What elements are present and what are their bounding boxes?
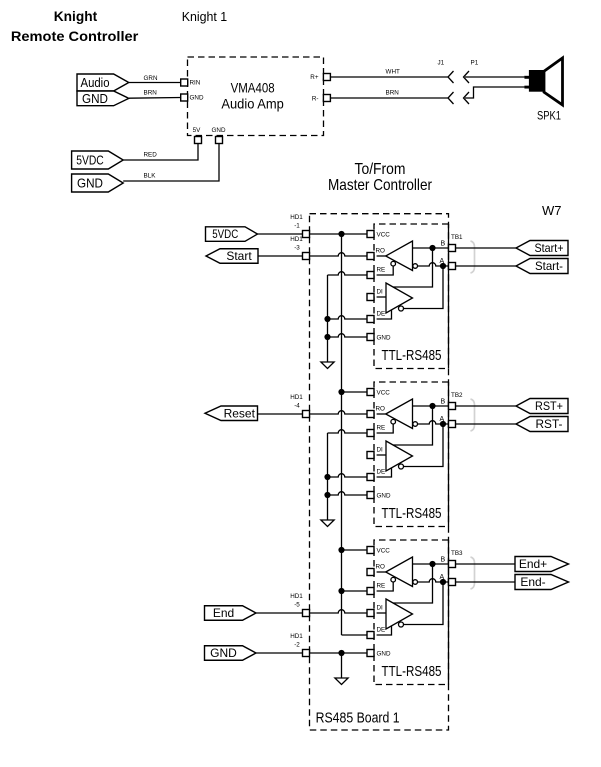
bubble A input (TB3) xyxy=(413,580,418,585)
svg-text:DI: DI xyxy=(377,447,384,454)
svg-text:To/From: To/From xyxy=(355,161,406,178)
wire RST+ xyxy=(455,405,516,407)
svg-text:Audio Amp: Audio Amp xyxy=(221,96,284,111)
pin TB3-A xyxy=(449,579,456,586)
bubble driver inverted out (TB2) xyxy=(399,464,404,469)
bubble RE enable (TB3) xyxy=(391,577,396,582)
wire BRN xyxy=(129,97,181,100)
svg-text:Start+: Start+ xyxy=(535,241,564,255)
wire driver inverted out to A (TB1) xyxy=(404,266,444,309)
wire RE/DE/GND tie to ground bus (TB2) xyxy=(328,430,368,433)
svg-text:TTL-RS485: TTL-RS485 xyxy=(382,663,442,680)
wire End (DI3) xyxy=(310,610,368,613)
svg-text:BLK: BLK xyxy=(144,173,157,180)
wire line B (TB1) xyxy=(413,247,449,249)
pin VCC (TB1) xyxy=(367,231,374,238)
node RST+ xyxy=(516,399,568,414)
svg-text:RIN: RIN xyxy=(190,80,201,87)
wire WHT xyxy=(330,76,448,78)
pin R+ xyxy=(323,74,330,81)
pin GND (amp power side) xyxy=(216,137,223,144)
node 5VDC (board) xyxy=(206,227,258,242)
svg-text:TB1: TB1 xyxy=(451,234,463,241)
wire line B (TB3) xyxy=(413,563,449,565)
pin TB1-B xyxy=(449,245,456,252)
svg-text:W7: W7 xyxy=(542,203,562,218)
bubble A input (TB1) xyxy=(413,264,418,269)
pin R- xyxy=(323,95,330,102)
bubble driver inverted out (TB3) xyxy=(399,622,404,627)
svg-text:B: B xyxy=(441,399,446,406)
svg-text:Knight 1: Knight 1 xyxy=(182,9,228,24)
svg-text:DE: DE xyxy=(377,311,386,318)
svg-text:-2: -2 xyxy=(294,642,300,649)
pin GND (TB2) xyxy=(367,492,374,499)
header HD1 pin -4 xyxy=(303,411,310,418)
pin RE (TB1) xyxy=(367,272,374,279)
wire line A (TB3) xyxy=(418,579,449,582)
svg-text:P1: P1 xyxy=(471,60,479,67)
wire speaker minus xyxy=(465,87,529,98)
node Audio xyxy=(77,74,129,91)
pin TB2-B xyxy=(449,403,456,410)
svg-text:RST-: RST- xyxy=(536,417,563,431)
bubble RE enable (TB2) xyxy=(391,419,396,424)
svg-text:J1: J1 xyxy=(438,60,445,67)
wire RE to receiver (TB1) xyxy=(377,266,394,275)
module RS485 Board 1 xyxy=(310,214,449,730)
wire Reset (RO2) xyxy=(310,411,368,414)
node Reset xyxy=(205,406,258,421)
svg-text:RE: RE xyxy=(377,267,386,274)
svg-text:RST+: RST+ xyxy=(535,399,563,413)
svg-text:Remote Controller: Remote Controller xyxy=(11,29,139,44)
pin DE (TB2) xyxy=(367,474,374,481)
module TTL-RS485 (TB2) xyxy=(374,382,449,527)
svg-text:BRN: BRN xyxy=(386,90,400,97)
module TTL-RS485 (TB3) xyxy=(374,540,449,685)
junction gnd (TB3) xyxy=(338,650,344,656)
svg-text:RE: RE xyxy=(377,425,386,432)
svg-text:End: End xyxy=(213,606,234,620)
pin RO (TB3) xyxy=(367,569,374,576)
wire GND to HD1-2 xyxy=(256,652,303,654)
wire RE tie to VCC bus (TB3) xyxy=(342,590,368,592)
ground (TB3) xyxy=(335,678,348,685)
node GND (board) xyxy=(205,646,257,661)
wire Start (RO1) xyxy=(310,253,368,256)
svg-text:HD1: HD1 xyxy=(290,593,303,600)
wire line A (TB1) xyxy=(418,263,449,266)
wire driver inverted out to A (TB2) xyxy=(404,424,444,467)
wire RE/DE/GND tie to ground bus (TB1) xyxy=(328,272,368,275)
svg-text:GND: GND xyxy=(77,175,103,190)
module VMA408 Audio Amp xyxy=(188,57,324,136)
wire DI to driver (TB3) xyxy=(377,612,386,614)
junction GND-gnd (TB1) xyxy=(324,334,330,340)
svg-text:-5: -5 xyxy=(294,602,300,609)
wire RO (TB1) xyxy=(377,255,386,257)
wire RED xyxy=(123,143,198,160)
node Start- xyxy=(516,259,568,274)
wire DE to driver (TB3) xyxy=(377,626,392,635)
svg-text:Knight: Knight xyxy=(54,9,98,24)
speaker SPK1 xyxy=(544,58,563,105)
svg-text:RO: RO xyxy=(376,564,386,571)
pin 5V xyxy=(195,137,202,144)
wire Reset to HD1-4 xyxy=(258,413,303,415)
junction DE-gnd (TB2) xyxy=(324,474,330,480)
junction VCC bus module1 xyxy=(338,231,344,237)
op-amp driver (TB2) xyxy=(386,441,413,471)
header HD1 pin -3 xyxy=(303,253,310,260)
pin GND (amp input side) xyxy=(181,94,188,101)
wire speaker plus xyxy=(465,76,529,78)
ground (TB1) xyxy=(321,362,334,369)
svg-text:BRN: BRN xyxy=(144,90,158,97)
cable shield bracket (TB2) xyxy=(471,399,475,431)
wire Start- xyxy=(455,265,516,267)
wire End+ xyxy=(455,563,515,565)
svg-text:End-: End- xyxy=(520,575,545,589)
svg-text:Audio: Audio xyxy=(81,75,110,90)
svg-text:DE: DE xyxy=(377,469,386,476)
bubble RE enable (TB1) xyxy=(391,261,396,266)
op-amp driver (TB1) xyxy=(386,283,413,313)
wire DI to driver (TB1) xyxy=(377,296,386,298)
pin RIN xyxy=(181,79,188,86)
svg-text:R+: R+ xyxy=(310,74,319,81)
svg-text:Master Controller: Master Controller xyxy=(328,177,433,194)
svg-text:TB2: TB2 xyxy=(451,392,463,399)
wire Start+ xyxy=(455,247,516,249)
module TTL-RS485 (TB1) xyxy=(374,224,449,369)
svg-text:GND: GND xyxy=(82,91,108,106)
junction GND-gnd (TB2) xyxy=(324,492,330,498)
junction B (TB2) xyxy=(429,403,435,409)
svg-text:HD1: HD1 xyxy=(290,236,303,243)
svg-text:GND: GND xyxy=(210,646,237,660)
pin DE (TB1) xyxy=(367,316,374,323)
wire VCC bus xyxy=(341,234,343,635)
pin DI (TB3) xyxy=(367,610,374,617)
wire Start to HD1-3 xyxy=(258,255,303,257)
pin RO (TB2) xyxy=(367,411,374,418)
svg-text:Start: Start xyxy=(226,249,252,263)
svg-text:VCC: VCC xyxy=(377,390,391,397)
svg-text:DI: DI xyxy=(377,289,384,296)
svg-text:RS485 Board 1: RS485 Board 1 xyxy=(316,710,400,727)
svg-text:TTL-RS485: TTL-RS485 xyxy=(382,505,442,522)
svg-text:RO: RO xyxy=(376,248,386,255)
pin GND (TB1) xyxy=(367,334,374,341)
node Start xyxy=(206,249,258,264)
junction VCC bus module3 xyxy=(338,547,344,553)
bubble A input (TB2) xyxy=(413,422,418,427)
svg-text:WHT: WHT xyxy=(386,69,400,76)
wire RE to receiver (TB3) xyxy=(377,582,394,591)
svg-text:RO: RO xyxy=(376,406,386,413)
svg-text:GND: GND xyxy=(377,651,391,658)
svg-text:HD1: HD1 xyxy=(290,214,303,221)
svg-text:-3: -3 xyxy=(294,245,300,252)
wire driver out to B (TB3) xyxy=(393,564,433,603)
ground (TB2) xyxy=(321,520,334,527)
wire End- xyxy=(455,581,515,583)
node Start+ xyxy=(516,241,568,256)
svg-text:GND: GND xyxy=(377,493,391,500)
svg-text:RE: RE xyxy=(377,583,386,590)
svg-text:GND: GND xyxy=(212,127,226,134)
wire RST- xyxy=(455,423,516,425)
pin TB1-A xyxy=(449,263,456,270)
node End xyxy=(205,606,257,621)
svg-text:VCC: VCC xyxy=(377,232,391,239)
ground bus (TB2) xyxy=(327,433,329,520)
wire RO (TB3) xyxy=(377,571,386,573)
wire RO (TB2) xyxy=(377,413,386,415)
op-amp receiver (TB2) xyxy=(386,399,413,429)
wire VCC feed module3 xyxy=(342,549,368,551)
wire End to HD1-5 xyxy=(256,612,303,614)
wire RE to receiver (TB2) xyxy=(377,424,394,433)
wire DI to driver (TB2) xyxy=(377,454,386,456)
svg-text:5VDC: 5VDC xyxy=(76,152,104,167)
svg-text:Reset: Reset xyxy=(224,406,256,420)
wire GRN xyxy=(129,82,181,84)
node GND (audio) xyxy=(77,91,129,106)
wire VCC feed module2 xyxy=(342,391,368,393)
svg-text:DI: DI xyxy=(377,605,384,612)
header HD1 pin -1 xyxy=(303,231,310,238)
pin DI (TB1) xyxy=(367,294,374,301)
wire VCC feed module1 xyxy=(342,233,368,235)
junction A (TB2) xyxy=(440,421,446,427)
op-amp receiver (TB1) xyxy=(386,241,413,271)
svg-text:VMA408: VMA408 xyxy=(231,80,275,95)
svg-text:VCC: VCC xyxy=(377,548,391,555)
junction A (TB1) xyxy=(440,263,446,269)
svg-text:HD1: HD1 xyxy=(290,394,303,401)
svg-text:-4: -4 xyxy=(294,403,300,410)
pin RE (TB3) xyxy=(367,588,374,595)
wire line A (TB2) xyxy=(418,421,449,424)
svg-text:GND: GND xyxy=(377,335,391,342)
node 5VDC (amp) xyxy=(72,151,124,169)
pin RO (TB1) xyxy=(367,253,374,260)
junction RE-vcc (TB3) xyxy=(338,588,344,594)
svg-text:TTL-RS485: TTL-RS485 xyxy=(382,347,442,364)
svg-text:R-: R- xyxy=(312,96,319,103)
pin TB2-A xyxy=(449,421,456,428)
pin VCC (TB3) xyxy=(367,547,374,554)
svg-text:-1: -1 xyxy=(294,223,300,230)
svg-text:RED: RED xyxy=(144,152,158,159)
wire driver inverted out to A (TB3) xyxy=(404,582,444,625)
node End+ xyxy=(515,557,569,572)
junction A (TB3) xyxy=(440,579,446,585)
svg-text:HD1: HD1 xyxy=(290,633,303,640)
pin TB3-B xyxy=(449,561,456,568)
junction B (TB3) xyxy=(429,561,435,567)
node GND (amp power) xyxy=(72,174,124,192)
pin RE (TB2) xyxy=(367,430,374,437)
svg-text:DE: DE xyxy=(377,627,386,634)
wire line B (TB2) xyxy=(413,405,449,407)
svg-text:Start-: Start- xyxy=(535,259,563,273)
wire DE to driver (TB1) xyxy=(377,310,392,319)
wire gnd stub (TB3) xyxy=(341,653,343,678)
op-amp receiver (TB3) xyxy=(386,557,413,587)
wire 5VDC to HD1-1 xyxy=(258,233,303,235)
wire DE tie to VCC bus (TB3) xyxy=(342,634,368,636)
header HD1 pin -5 xyxy=(303,610,310,617)
svg-text:5V: 5V xyxy=(193,127,202,134)
ground bus (TB1) xyxy=(327,275,329,362)
wire 5VDC feed xyxy=(310,233,342,235)
pin DI (TB2) xyxy=(367,452,374,459)
svg-text:B: B xyxy=(441,557,446,564)
junction VCC bus module2 xyxy=(338,389,344,395)
svg-text:5VDC: 5VDC xyxy=(212,227,238,241)
junction DE-gnd (TB1) xyxy=(324,316,330,322)
wire driver out to B (TB1) xyxy=(393,248,433,287)
header HD1 pin -2 xyxy=(303,650,310,657)
cable shield bracket (TB3) xyxy=(471,557,475,589)
svg-text:GRN: GRN xyxy=(144,75,158,82)
pin DE (TB3) xyxy=(367,632,374,639)
pin VCC (TB2) xyxy=(367,389,374,396)
wire BLK xyxy=(123,143,219,181)
svg-text:B: B xyxy=(441,241,446,248)
wire GND (module3) xyxy=(310,652,368,654)
svg-text:GND: GND xyxy=(190,95,204,102)
junction B (TB1) xyxy=(429,245,435,251)
wire driver out to B (TB2) xyxy=(393,406,433,445)
pin GND (TB3) xyxy=(367,650,374,657)
wire DE to driver (TB2) xyxy=(377,468,392,477)
node End- xyxy=(515,575,569,590)
bubble driver inverted out (TB1) xyxy=(399,306,404,311)
svg-text:End+: End+ xyxy=(519,557,547,571)
svg-text:SPK1: SPK1 xyxy=(537,109,561,123)
wire BRN (speaker) xyxy=(330,97,448,99)
svg-text:TB3: TB3 xyxy=(451,550,463,557)
node RST- xyxy=(516,417,568,432)
cable shield bracket (TB1) xyxy=(471,241,475,273)
op-amp driver (TB3) xyxy=(386,599,413,629)
